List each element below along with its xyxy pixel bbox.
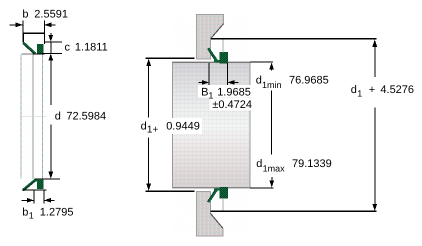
svg-text:1+: 1+ (147, 125, 159, 136)
svg-text:1.2795: 1.2795 (40, 206, 74, 218)
svg-text:4.5276: 4.5276 (380, 84, 414, 96)
svg-text:1: 1 (357, 89, 362, 99)
svg-text:b: b (22, 206, 28, 218)
svg-text:d: d (141, 121, 147, 133)
svg-text:0.9449: 0.9449 (166, 121, 200, 133)
svg-text:1min: 1min (262, 80, 282, 90)
svg-text:d: d (256, 158, 262, 170)
svg-text:79.1339: 79.1339 (292, 158, 332, 170)
svg-text:d: d (256, 75, 262, 87)
svg-text:1.9685: 1.9685 (217, 87, 251, 99)
svg-text:d: d (55, 111, 61, 123)
svg-text:d: d (351, 84, 357, 96)
svg-text:+: + (369, 84, 375, 96)
svg-text:B: B (201, 87, 208, 99)
svg-text:76.9685: 76.9685 (289, 75, 329, 87)
svg-text:±0.4724: ±0.4724 (212, 99, 252, 111)
svg-text:72.5984: 72.5984 (66, 111, 106, 123)
svg-text:2.5591: 2.5591 (34, 9, 68, 21)
svg-text:1: 1 (29, 210, 34, 220)
svg-text:1max: 1max (263, 163, 286, 173)
svg-text:c: c (65, 41, 71, 53)
svg-text:b: b (22, 9, 28, 21)
svg-text:1.1811: 1.1811 (75, 41, 108, 53)
